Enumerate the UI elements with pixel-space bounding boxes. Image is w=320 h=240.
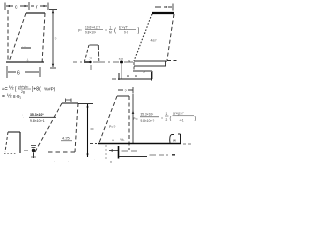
- svg-text:·+1: ·+1: [179, 119, 184, 123]
- figure4 right dimension line: [132, 94, 134, 143]
- figure2 small trapezoid top edge: [90, 44, 99, 46]
- svg-text:8·9₁: 8·9₁: [13, 94, 22, 99]
- svg-text:.|.: .|.: [26, 58, 29, 62]
- svg-text:=: =: [161, 116, 163, 120]
- svg-text:2g: 2g: [21, 90, 25, 94]
- svg-text:.: .: [94, 157, 95, 161]
- dimension line y79: [112, 78, 116, 80]
- svg-text:35.3×10³: 35.3×10³: [30, 113, 44, 117]
- svg-text:s: s: [143, 70, 145, 74]
- svg-text:P≈?: P≈?: [109, 125, 115, 129]
- svg-text:½: ½: [7, 93, 12, 100]
- figure5 bottom dashed: [48, 151, 78, 153]
- svg-text:1: 1: [110, 26, 112, 30]
- svg-text:6: 6: [17, 71, 20, 77]
- below-base long line: [119, 156, 147, 158]
- figure6 right edge: [19, 132, 21, 153]
- svg-text:35.3×10³: 35.3×10³: [141, 113, 154, 117]
- figure2 right edge: [97, 45, 100, 61]
- figure2 bottom corner bold: [84, 61, 90, 63]
- vertical leader below marker: [121, 64, 123, 79]
- figure5 top edge: [62, 102, 78, 104]
- svg-text:ʻ.: ʻ.: [22, 114, 24, 119]
- svg-text:××: ××: [119, 56, 124, 61]
- figure3 vertical drop: [151, 71, 153, 79]
- figure1 left edge dashed: [7, 10, 9, 62]
- figure4 top edge: [117, 95, 129, 97]
- figure6 left dashed edge: [5, 132, 8, 152]
- figure2 tick below: [90, 65, 92, 70]
- svg-text:w: w: [173, 138, 176, 143]
- svg-text:γh+γh²: γh+γh²: [18, 85, 29, 89]
- svg-text:(: (: [170, 116, 172, 122]
- figure5 right dim line: [78, 103, 93, 105]
- svg-text:9.8×10³·1: 9.8×10³·1: [30, 119, 45, 123]
- figure3 bottom edge: [134, 60, 167, 62]
- figure3 lower line1: [134, 65, 166, 67]
- svg-text:9·t: 9·t: [124, 31, 128, 35]
- figure4 left dashed edge: [99, 96, 117, 143]
- svg-text:»=: »=: [2, 87, 8, 93]
- figure3 top edge bold: [152, 12, 174, 14]
- svg-text:.: .: [68, 159, 69, 163]
- ground baseline: [90, 143, 97, 145]
- figure5 left dashed slant: [35, 103, 62, 152]
- svg-text:): ): [195, 116, 197, 122]
- figure6 top edge: [8, 131, 20, 133]
- svg-text:=: =: [2, 94, 5, 100]
- centerline dash-dot: [73, 61, 133, 63]
- figure1 bottom edge: [6, 61, 44, 63]
- svg-text:a’+γc·r’: a’+γc·r’: [173, 112, 184, 116]
- svg-text:.: .: [54, 159, 55, 163]
- svg-text:×: ×: [112, 139, 114, 143]
- below-base dim left arrow: [109, 150, 118, 152]
- svg-text:½: ½: [9, 85, 14, 92]
- figure1 bottom dimension line: [7, 66, 40, 78]
- svg-text:4a?: 4a?: [151, 39, 157, 43]
- figure2 point on base: [89, 61, 91, 63]
- figure4 right dashed edge: [128, 96, 130, 150]
- svg-text:4.25: 4.25: [62, 136, 71, 141]
- svg-text:%.: %.: [120, 137, 125, 142]
- svg-text:p≈: p≈: [78, 28, 82, 32]
- dashes right of tick: [122, 150, 138, 152]
- figure1 parallelogram top edge: [26, 12, 45, 14]
- figure3 left dotted edge: [134, 14, 152, 61]
- figure5 top tick: [66, 99, 72, 103]
- svg-text:M: M: [109, 31, 112, 35]
- figure3 right dashed edge: [167, 14, 174, 60]
- figure3 lower line2 with tick: [133, 70, 152, 72]
- svg-text:9.8×10³·?: 9.8×10³·?: [141, 119, 155, 123]
- below-base bold tick: [118, 146, 120, 159]
- weight box on baseline: [170, 134, 181, 143]
- figure1 inner label overline: [21, 47, 31, 49]
- figure4 top dimension: [118, 89, 133, 91]
- svg-text:%#P): %#P): [44, 87, 56, 92]
- figure6 bottom dotted: [4, 153, 17, 155]
- figure1 diagonal dashed edge: [9, 13, 26, 62]
- faint bottom dots: [110, 161, 111, 162]
- figure1 right dashed edge: [42, 13, 45, 64]
- faint vertical dashes: [105, 145, 107, 160]
- figure1 right vertical dimension: [49, 10, 57, 69]
- svg-text:2: 2: [166, 118, 168, 122]
- figure2 left dashed edge: [85, 45, 90, 61]
- svg-text:P=: P=: [133, 117, 139, 121]
- svg-text::=: :=: [89, 57, 92, 61]
- svg-text:E’×γT’: E’×γT’: [119, 26, 128, 30]
- svg-text:9.8×10³: 9.8×10³: [85, 31, 96, 35]
- figure3 base extension right: [167, 60, 177, 62]
- water level symbol: [31, 145, 36, 147]
- svg-text:1: 1: [166, 112, 168, 116]
- svg-text:(: (: [114, 28, 116, 34]
- svg-text:=: =: [105, 28, 107, 32]
- figure5 right dashed slant: [75, 103, 78, 152]
- svg-text:19.6×4.2.?: 19.6×4.2.?: [85, 26, 100, 30]
- svg-text:]+8(: ]+8(: [32, 87, 41, 93]
- svg-text:. ..: . ..: [22, 44, 26, 48]
- svg-text:?: ?: [55, 37, 57, 41]
- figure3 top dim dashes: [155, 4, 173, 11]
- figure1 top dimension line c+r: [5, 2, 48, 10]
